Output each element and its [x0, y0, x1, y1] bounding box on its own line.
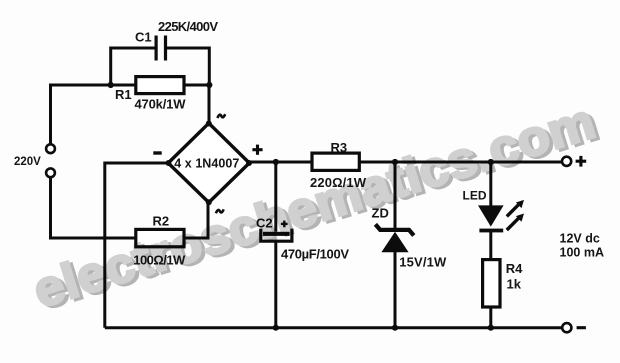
- svg-text:220V: 220V: [14, 156, 41, 168]
- svg-text:R1: R1: [115, 87, 132, 102]
- svg-text:R3: R3: [331, 140, 348, 155]
- svg-text:470k/1W: 470k/1W: [135, 96, 187, 111]
- svg-text:4 x 1N4007: 4 x 1N4007: [174, 156, 239, 170]
- svg-text:12V dc: 12V dc: [560, 231, 600, 245]
- svg-text:225K/400V: 225K/400V: [158, 19, 218, 34]
- svg-text:R4: R4: [506, 261, 523, 276]
- svg-text:1k: 1k: [507, 277, 522, 292]
- svg-text:15V/1W: 15V/1W: [399, 255, 447, 270]
- svg-text:C1: C1: [135, 30, 152, 45]
- svg-text:470µF/100V: 470µF/100V: [281, 247, 349, 262]
- svg-text:100 mA: 100 mA: [560, 246, 604, 260]
